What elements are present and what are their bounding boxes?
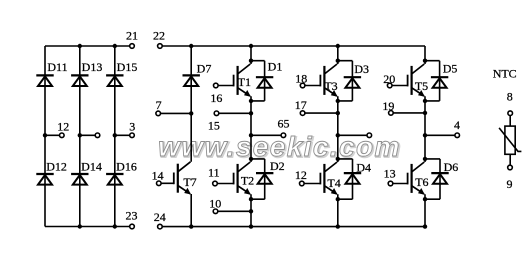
svg-text:D4: D4 [356, 160, 371, 174]
svg-text:12: 12 [57, 119, 69, 133]
svg-text:15: 15 [208, 118, 220, 132]
svg-text:21: 21 [126, 29, 138, 43]
svg-text:13: 13 [384, 166, 396, 180]
svg-text:D15: D15 [117, 60, 138, 74]
svg-text:D12: D12 [46, 160, 67, 174]
svg-text:D1: D1 [268, 60, 283, 74]
svg-text:17: 17 [295, 98, 307, 112]
svg-text:10: 10 [209, 197, 221, 211]
svg-text:T1: T1 [238, 75, 251, 89]
svg-text:T7: T7 [183, 175, 196, 189]
svg-text:T2: T2 [241, 174, 254, 188]
svg-text:24: 24 [154, 210, 166, 224]
svg-text:20: 20 [383, 72, 395, 86]
svg-text:65: 65 [278, 117, 290, 131]
svg-text:D14: D14 [81, 160, 102, 174]
svg-text:11: 11 [208, 166, 220, 180]
svg-text:4: 4 [454, 118, 460, 132]
svg-text:19: 19 [382, 99, 394, 113]
svg-text:8: 8 [507, 90, 513, 104]
svg-text:D3: D3 [354, 62, 369, 76]
svg-text:NTC: NTC [493, 67, 517, 81]
svg-text:22: 22 [153, 29, 165, 43]
svg-text:14: 14 [152, 168, 164, 182]
svg-text:T3: T3 [324, 79, 337, 93]
svg-text:D13: D13 [82, 60, 103, 74]
svg-text:9: 9 [507, 177, 513, 191]
svg-text:D7: D7 [197, 62, 212, 76]
svg-text:D11: D11 [47, 60, 67, 74]
svg-text:18: 18 [295, 71, 307, 85]
svg-text:D2: D2 [270, 159, 285, 173]
svg-text:T4: T4 [327, 176, 340, 190]
svg-text:3: 3 [129, 120, 135, 134]
svg-text:23: 23 [126, 208, 138, 222]
svg-text:12: 12 [295, 168, 307, 182]
svg-text:16: 16 [210, 91, 222, 105]
svg-text:T5: T5 [415, 79, 428, 93]
svg-text:7: 7 [156, 98, 162, 112]
svg-text:D5: D5 [443, 61, 458, 75]
svg-text:D6: D6 [444, 160, 459, 174]
svg-text:D16: D16 [116, 160, 137, 174]
svg-text:T6: T6 [415, 175, 428, 189]
